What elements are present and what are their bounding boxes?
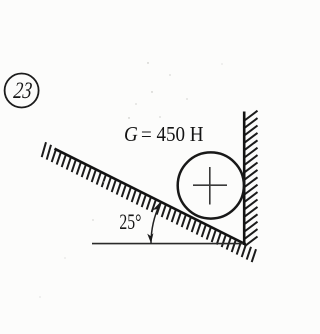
incline hatching (42, 142, 256, 262)
arc arrowhead at floor (147, 233, 154, 243)
floor line (92, 243, 246, 245)
scan speckles (40, 62, 223, 297)
inclined surface line (55, 149, 246, 244)
ball center cross horizontal (193, 184, 227, 186)
svg-text:25°: 25° (119, 209, 141, 234)
ball center cross vertical (209, 167, 211, 205)
ball (178, 152, 244, 218)
wall hatching (245, 111, 258, 247)
svg-text:23: 23 (12, 78, 33, 104)
angle arc (151, 204, 160, 244)
arc arrowhead at incline (153, 201, 163, 213)
wall line (243, 112, 246, 246)
svg-text:= 450 Н: = 450 Н (141, 122, 204, 146)
problem number circle (5, 74, 39, 108)
svg-text:G: G (124, 122, 138, 146)
